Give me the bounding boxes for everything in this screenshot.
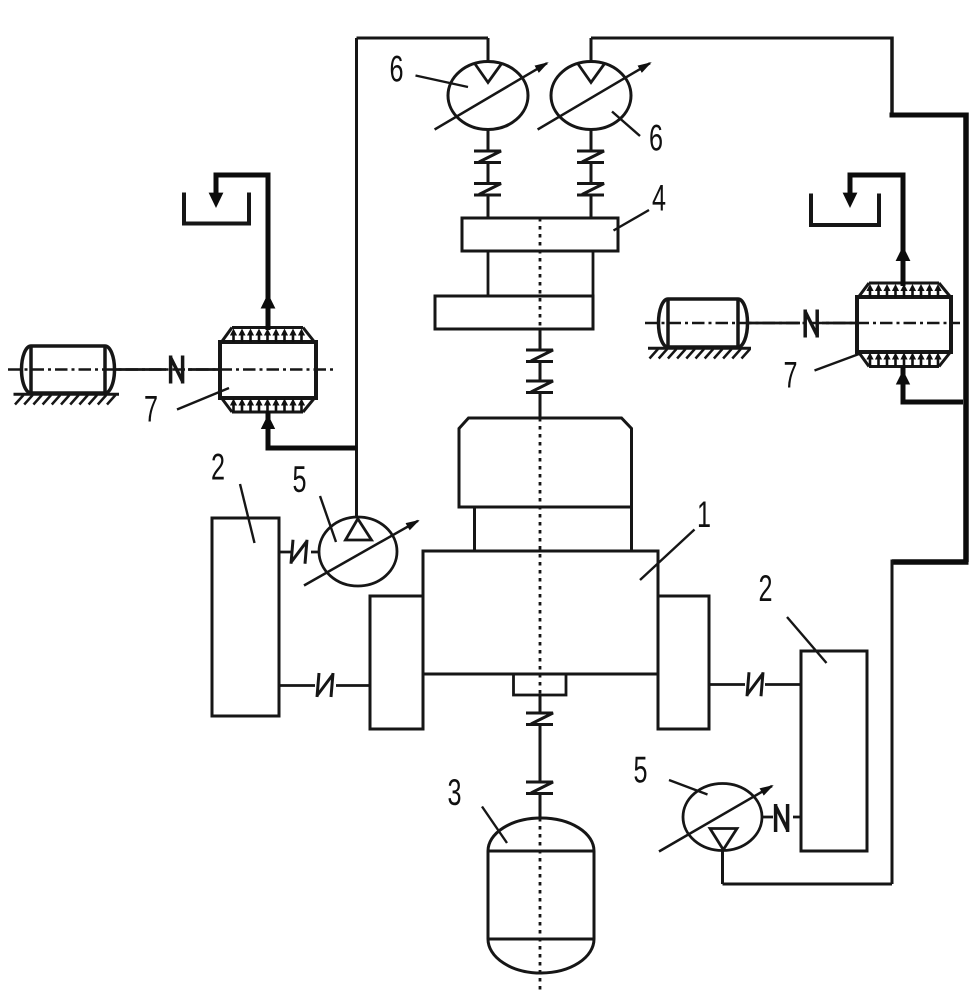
- svg-text:3: 3: [448, 772, 462, 813]
- svg-text:5: 5: [293, 459, 307, 500]
- svg-text:4: 4: [652, 178, 666, 219]
- svg-text:5: 5: [634, 750, 648, 791]
- svg-text:1: 1: [697, 494, 711, 535]
- svg-text:6: 6: [649, 118, 663, 159]
- svg-text:7: 7: [784, 355, 798, 396]
- svg-text:2: 2: [211, 447, 225, 488]
- svg-text:6: 6: [390, 49, 404, 90]
- svg-text:2: 2: [759, 568, 773, 609]
- svg-text:7: 7: [144, 389, 158, 430]
